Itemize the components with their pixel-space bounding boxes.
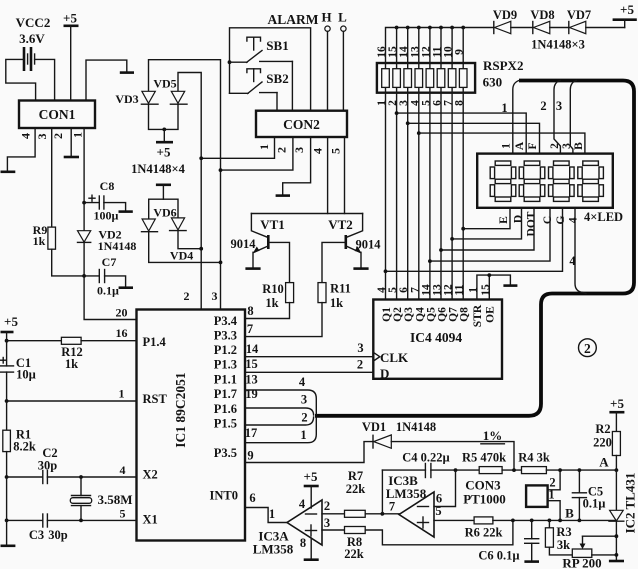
svg-text:15: 15 (245, 357, 258, 371)
svg-text:5: 5 (120, 507, 126, 521)
svg-text:R4 3k: R4 3k (518, 451, 550, 465)
capacitor C6 0.1u (478, 520, 538, 562)
svg-text:VD7: VD7 (567, 8, 591, 22)
wire VD4 cathode to pin2 rail (178, 231, 201, 249)
junction VD4 on rail (199, 247, 203, 251)
wire digit select 3 from cable (570, 81, 576, 154)
op-amp IC1 89C2051 box (137, 310, 246, 541)
diode VD9 (493, 8, 533, 34)
svg-text:C4 0.22µ: C4 0.22µ (402, 451, 449, 465)
svg-text:3: 3 (292, 147, 306, 153)
wire CON3 pin1 to B (548, 501, 561, 521)
svg-text:4: 4 (120, 463, 126, 477)
svg-text:3k: 3k (557, 538, 570, 552)
power +5 top right (613, 2, 637, 28)
svg-text:RSPX2: RSPX2 (483, 58, 523, 73)
power +5 below VD3/VD5 (156, 129, 173, 159)
potentiometer RP 200 (562, 536, 601, 570)
diode VD4 (170, 218, 194, 263)
wire CON2 pin2 to VD3 rail (221, 137, 293, 170)
svg-text:3: 3 (556, 99, 562, 113)
svg-text:1: 1 (548, 488, 554, 502)
svg-text:P1.1: P1.1 (214, 373, 237, 387)
svg-text:2: 2 (51, 133, 65, 139)
svg-text:P1.2: P1.2 (214, 343, 237, 357)
capacitor C2 30p (7, 446, 137, 484)
svg-text:H: H (321, 10, 331, 25)
svg-text:22k: 22k (346, 482, 366, 496)
capacitor C7 0.1u (84, 255, 126, 298)
svg-text:1: 1 (119, 387, 125, 401)
wire IC1 pin14 to IC4 CLK (245, 356, 373, 358)
svg-text:4×LED: 4×LED (584, 210, 623, 224)
capacitor C8 100u (84, 179, 126, 223)
wire R2 to A (615, 456, 617, 471)
diode VD6 (142, 206, 177, 232)
wire IC3B pin5 B line with R6 (434, 519, 474, 521)
svg-text:C7: C7 (102, 255, 117, 269)
svg-text:30p: 30p (48, 528, 68, 542)
svg-text:9014: 9014 (231, 237, 257, 251)
junction +5 rail (5, 339, 9, 343)
svg-text:VD9: VD9 (493, 8, 517, 22)
junction C7/R9 on rail (82, 274, 86, 278)
wire R3 to RP (549, 547, 572, 555)
svg-text:CON1: CON1 (39, 107, 76, 122)
svg-text:+5: +5 (620, 2, 634, 17)
junction dots top rail (395, 26, 465, 30)
ground C7 (119, 286, 133, 289)
power +5 top-left (63, 11, 78, 101)
svg-text:220: 220 (593, 436, 612, 450)
terminal H (321, 10, 331, 111)
wire segment DOT from pack6 (441, 208, 534, 250)
svg-text:2: 2 (357, 358, 363, 372)
ground CON1 pin2 (64, 156, 79, 159)
svg-text:1N4148: 1N4148 (98, 239, 137, 253)
svg-text:ALARM: ALARM (268, 12, 319, 27)
wire IC3A pin3 to R8 (322, 529, 345, 531)
resistor R1 8.2k (3, 401, 36, 477)
svg-text:1k: 1k (265, 296, 278, 310)
wire RP right to column (592, 554, 617, 556)
wire segment F from pack3 (408, 123, 540, 153)
ground VT1 emitter (245, 267, 260, 270)
junction R2 on A (615, 468, 619, 472)
svg-text:1k: 1k (330, 296, 343, 310)
diode VD3 (115, 91, 158, 106)
wire IC1 pin15 to IC4 D (245, 371, 373, 373)
svg-text:E: E (498, 216, 510, 224)
svg-text:16: 16 (116, 326, 128, 340)
svg-text:P3.4: P3.4 (214, 314, 238, 328)
op-amp IC4 4094 box (373, 300, 502, 382)
svg-text:3: 3 (324, 516, 330, 530)
junction IC3B pin6 node (454, 468, 458, 472)
svg-text:1: 1 (257, 144, 271, 150)
svg-text:1k: 1k (65, 357, 78, 371)
svg-text:9014: 9014 (356, 238, 382, 252)
ground VT2 emitter (353, 267, 368, 270)
junction RST rail (5, 399, 9, 403)
svg-text:9: 9 (247, 449, 253, 463)
svg-text:P1.4: P1.4 (143, 335, 167, 349)
svg-text:IC4 4094: IC4 4094 (410, 330, 462, 345)
ground left rail (1, 544, 16, 547)
svg-text:C3: C3 (29, 528, 44, 542)
svg-text:4: 4 (299, 375, 306, 389)
svg-text:3: 3 (357, 341, 363, 355)
wire VT collector rail (251, 213, 362, 215)
svg-text:1: 1 (501, 101, 507, 115)
svg-text:D: D (380, 366, 389, 381)
wire digit select 4 from cable (575, 208, 586, 294)
power +5 IC3A (304, 469, 319, 508)
junction left rail X1 (5, 519, 9, 523)
svg-text:L: L (338, 10, 347, 25)
wire VD6 cathode to pin3 rail (149, 232, 221, 263)
wire ALARM rail (230, 28, 311, 111)
ground C6 (524, 560, 539, 563)
svg-text:RP 200: RP 200 (562, 556, 601, 570)
svg-text:VD3: VD3 (115, 92, 138, 106)
connector CON1 (19, 101, 95, 129)
svg-text:INT0: INT0 (210, 489, 238, 503)
LED display 4xLED box (477, 154, 623, 224)
svg-text:4: 4 (19, 133, 33, 139)
svg-text:100µ: 100µ (94, 209, 119, 223)
svg-text:VD4: VD4 (170, 249, 193, 263)
wire segment C from pack5 (430, 208, 550, 261)
svg-text:Q8: Q8 (459, 307, 471, 322)
transistor VT2 9014 (328, 214, 381, 268)
IC4 top pin labels Q1-Q8 STR OE (381, 304, 496, 327)
diode VD1 1N4148 (362, 420, 436, 448)
svg-text:+5: +5 (63, 11, 77, 26)
wire SB2 to CON2 pin1 top (276, 93, 278, 111)
resistor R3 3k (545, 520, 571, 552)
wire IC3A pin8 to ground (310, 538, 312, 558)
junction wiper (615, 534, 619, 538)
resistor R10 1k (262, 282, 293, 310)
wire digit select 2 from cable (554, 81, 560, 154)
svg-text:1%: 1% (483, 428, 503, 443)
svg-text:LM358: LM358 (253, 542, 294, 557)
ground STR/OE (503, 284, 517, 287)
wire segment D from pack7 (452, 208, 521, 239)
wire OE stub (488, 275, 490, 299)
wire B line (493, 519, 617, 521)
diode VD5 (153, 77, 187, 105)
svg-text:R6 22k: R6 22k (465, 526, 503, 540)
wire R8 loop to B node (365, 520, 513, 544)
junction RP right (615, 553, 619, 557)
ground top-left (120, 71, 134, 74)
svg-text:SB1: SB1 (266, 38, 288, 53)
svg-text:17: 17 (245, 426, 258, 440)
junction R3 on B (548, 519, 552, 523)
ground TL431 (609, 560, 624, 563)
crystal 3.58M (70, 477, 132, 520)
svg-text:7: 7 (389, 500, 395, 514)
svg-text:R10: R10 (262, 282, 284, 296)
pushbutton SB1 (230, 37, 293, 62)
junction crystal top (79, 475, 83, 479)
svg-text:P3.3: P3.3 (214, 329, 237, 343)
transistor VT1 9014 (231, 214, 285, 268)
wire R11 to IC1 pin7 (245, 303, 322, 337)
ground C8 (119, 210, 133, 213)
svg-text:8.2k: 8.2k (13, 440, 36, 454)
wire VD3/VD5 cathodes join (149, 104, 179, 129)
junction C4 feedback node (381, 512, 385, 516)
IC4 clock input symbol (373, 352, 380, 361)
svg-text:2: 2 (184, 289, 190, 303)
svg-text:G: G (555, 215, 567, 224)
junction VD6 on rail (219, 261, 223, 265)
wire CON3 pin2 to A (548, 470, 561, 490)
pack pin numbers bottom 1..8 (376, 100, 466, 106)
resistor R7 22k (345, 469, 366, 517)
svg-text:1N4148×3: 1N4148×3 (531, 38, 585, 52)
junction X2 rail (5, 475, 9, 479)
svg-text:PT1000: PT1000 (463, 492, 506, 507)
ground CON1 pin4 (1, 171, 16, 174)
wire CON1 pin4 to ground (7, 128, 35, 171)
svg-text:D: D (513, 215, 525, 223)
wire VT2 base to R11 (322, 242, 346, 282)
wire battery plus to CON1 (35, 59, 55, 100)
svg-text:CLK: CLK (380, 350, 409, 365)
wire IC3B pin6 to C4 node (434, 470, 456, 506)
svg-text:C6 0.1µ: C6 0.1µ (478, 549, 519, 563)
wire VD5 top loop to rail pin2 (178, 73, 201, 310)
wire segment G from pack1 (386, 208, 563, 271)
diode VD7 (567, 8, 625, 34)
connector CON2 (256, 111, 347, 137)
wire segment E from pack8 (463, 208, 510, 229)
pack pin numbers top 16..9 (376, 46, 466, 58)
svg-text:4: 4 (569, 254, 576, 268)
svg-text:R5 470k: R5 470k (462, 451, 506, 465)
svg-text:DOT: DOT (526, 211, 538, 236)
op-amp IC3B LM358 (386, 473, 434, 537)
svg-text:+5: +5 (304, 469, 318, 484)
power +5 R2 (609, 396, 624, 432)
svg-text:630: 630 (483, 75, 503, 90)
wire CON1 pin2 to ground (70, 128, 72, 156)
capacitor C1 10u (1, 341, 36, 382)
junction CON3 pin2 on A (558, 468, 562, 472)
svg-text:CON3: CON3 (465, 478, 501, 493)
svg-text:3.58M: 3.58M (97, 492, 132, 507)
wire CON2 pin4 to VT rail (327, 137, 329, 214)
svg-text:VCC2: VCC2 (16, 15, 51, 30)
svg-text:SB2: SB2 (266, 71, 288, 86)
wire VD2 to C7 junction and IC1 pin20 (84, 242, 136, 319)
wire CON2 pin5 to VT rail (344, 137, 346, 214)
svg-text:1: 1 (269, 507, 275, 521)
svg-text:CON2: CON2 (283, 117, 320, 132)
wire VD3 top loop to rail pin3 (149, 60, 221, 310)
junction VD3/VD5 bottom (162, 127, 166, 131)
resistor R12 1k (61, 337, 83, 371)
IC4 top pin numbers (376, 284, 492, 296)
wire left rail to ground (6, 477, 8, 545)
svg-text:2: 2 (540, 99, 546, 113)
wire IC1 pin9 to VD1 (245, 442, 373, 463)
svg-text:0.1µ: 0.1µ (97, 284, 119, 298)
svg-text:2: 2 (584, 341, 591, 356)
svg-text:B: B (565, 506, 574, 521)
wire R10 to IC1 pin8 (245, 303, 290, 319)
svg-text:IC2 TL431: IC2 TL431 (623, 473, 638, 534)
svg-text:4: 4 (568, 217, 580, 223)
junction OE (487, 273, 491, 277)
svg-text:VD1: VD1 (362, 420, 386, 434)
wire digit select 1 from cable (513, 81, 519, 154)
svg-text:5: 5 (435, 504, 441, 518)
svg-text:2: 2 (275, 147, 289, 153)
cable bus thick line (315, 81, 634, 416)
svg-text:P3.5: P3.5 (214, 446, 237, 460)
display digit 3 (549, 161, 575, 201)
svg-text:2: 2 (301, 411, 307, 425)
wire RP wiper to TL431 column (583, 535, 617, 537)
svg-text:R3: R3 (556, 525, 571, 539)
resistor R4 3k (518, 451, 616, 474)
svg-text:X2: X2 (143, 468, 158, 482)
svg-text:+5: +5 (157, 145, 171, 160)
svg-text:10µ: 10µ (16, 368, 36, 382)
connector CON3 PT1000 (463, 478, 547, 507)
svg-text:8: 8 (300, 536, 306, 550)
junction pin2 on rail (219, 168, 223, 172)
pushbutton SB2 (230, 69, 289, 94)
display digit 1 (490, 161, 516, 201)
resistor pack RSPX2 630 box (377, 58, 524, 93)
svg-text:14: 14 (246, 342, 259, 356)
wire CON1 pin3 to R9 (51, 128, 53, 227)
svg-text:1N4148: 1N4148 (396, 420, 436, 434)
wire CON2 pin1 to VD5 rail (201, 137, 274, 158)
pack resistors 1-8 with through wires (382, 28, 467, 300)
svg-text:3: 3 (212, 289, 218, 303)
svg-text:P1.5: P1.5 (214, 417, 237, 431)
svg-text:8: 8 (247, 304, 253, 318)
resistor R5 470k (456, 451, 522, 474)
svg-text:1: 1 (300, 428, 306, 442)
power +5 left (1, 314, 19, 341)
wire +5 to R12 (7, 340, 62, 342)
svg-text:B: B (573, 142, 585, 150)
svg-text:IC1 89C2051: IC1 89C2051 (173, 372, 188, 448)
svg-text:1N4148×4: 1N4148×4 (131, 162, 185, 176)
svg-text:3: 3 (35, 134, 49, 140)
resistor R11 1k (318, 282, 351, 311)
svg-text:X1: X1 (143, 513, 158, 527)
display top pin labels 1 A F 2 3 B (501, 141, 586, 150)
svg-text:VD8: VD8 (530, 8, 554, 22)
svg-text:5: 5 (329, 148, 343, 154)
terminal L (338, 10, 347, 111)
junction C5 on A (578, 468, 582, 472)
wire C1 to RST (7, 372, 137, 401)
svg-text:A: A (599, 455, 609, 470)
wire bundle 2 from IC1 pin18 (245, 417, 314, 425)
svg-text:R7: R7 (348, 469, 363, 483)
wire R7 to IC3B output (365, 513, 399, 515)
svg-text:VT1: VT1 (260, 217, 285, 232)
wire bundle 4 from IC1 pin13 (245, 390, 316, 415)
svg-text:1: 1 (501, 143, 513, 149)
diode VD2 1N4148 (78, 228, 137, 254)
svg-text:13: 13 (245, 373, 258, 387)
junction R8 loop on B (511, 519, 515, 523)
wire INT0 to IC3A output (245, 508, 287, 523)
battery VCC2 3.6V (16, 15, 51, 71)
svg-text:+5: +5 (4, 314, 18, 329)
junction crystal bottom (79, 519, 83, 523)
svg-text:11: 11 (454, 284, 466, 295)
svg-text:1: 1 (70, 132, 84, 138)
svg-text:A: A (514, 141, 526, 150)
svg-text:3: 3 (301, 393, 307, 407)
wire STR/OE to ground (477, 275, 511, 299)
svg-text:7: 7 (247, 322, 253, 336)
svg-text:VD5: VD5 (153, 77, 176, 91)
wire TL431 to ground (615, 521, 617, 559)
wire battery minus to CON1 (6, 59, 36, 100)
svg-text:OE: OE (484, 306, 496, 323)
svg-text:19: 19 (245, 387, 258, 401)
ground CON2 pin3 (276, 194, 290, 197)
svg-text:F: F (527, 142, 539, 149)
svg-text:20: 20 (116, 306, 128, 320)
svg-text:3.6V: 3.6V (19, 31, 45, 46)
svg-text:P1.7: P1.7 (214, 387, 237, 401)
display bottom pin labels E D DOT C G 4 (498, 211, 580, 236)
diode VD8 (530, 8, 569, 34)
wire segment A from pack2 (397, 113, 527, 154)
junction VD1 on A line (512, 468, 516, 472)
junction SB1 left contact (228, 60, 232, 64)
wire VD1 to A line (391, 442, 514, 471)
junction C6 on B (530, 519, 534, 523)
svg-text:P1.6: P1.6 (214, 402, 237, 416)
op-amp IC3A LM358 (253, 500, 322, 557)
display digit 4 (578, 161, 604, 201)
wire IC3A pin2 to R7 (322, 513, 345, 515)
svg-text:RST: RST (143, 392, 168, 406)
ground IC3A (304, 558, 319, 561)
wire segment B from pack4 (419, 133, 585, 154)
junction pin1 on rail (199, 156, 203, 160)
wire CON1 pin1 rail down to VD2 (83, 128, 85, 231)
capacitor C4 0.22u (382, 451, 455, 478)
capacitor C3 30p (7, 514, 137, 542)
wire R12 to IC1 pin16 (81, 340, 136, 342)
wire bundle 3 from IC1 pin19 (245, 408, 314, 415)
svg-text:C8: C8 (100, 179, 115, 193)
wire feedback node up to C4 (381, 470, 383, 514)
wire R9 bottom to rail (52, 249, 84, 276)
resistor R9 1k (33, 223, 56, 249)
power +5 above VD6/VD4 (156, 185, 171, 199)
svg-text:VT2: VT2 (328, 217, 353, 232)
wire CON2 pin3 to ground (283, 137, 311, 194)
capacitor C5 0.1u (572, 470, 605, 520)
